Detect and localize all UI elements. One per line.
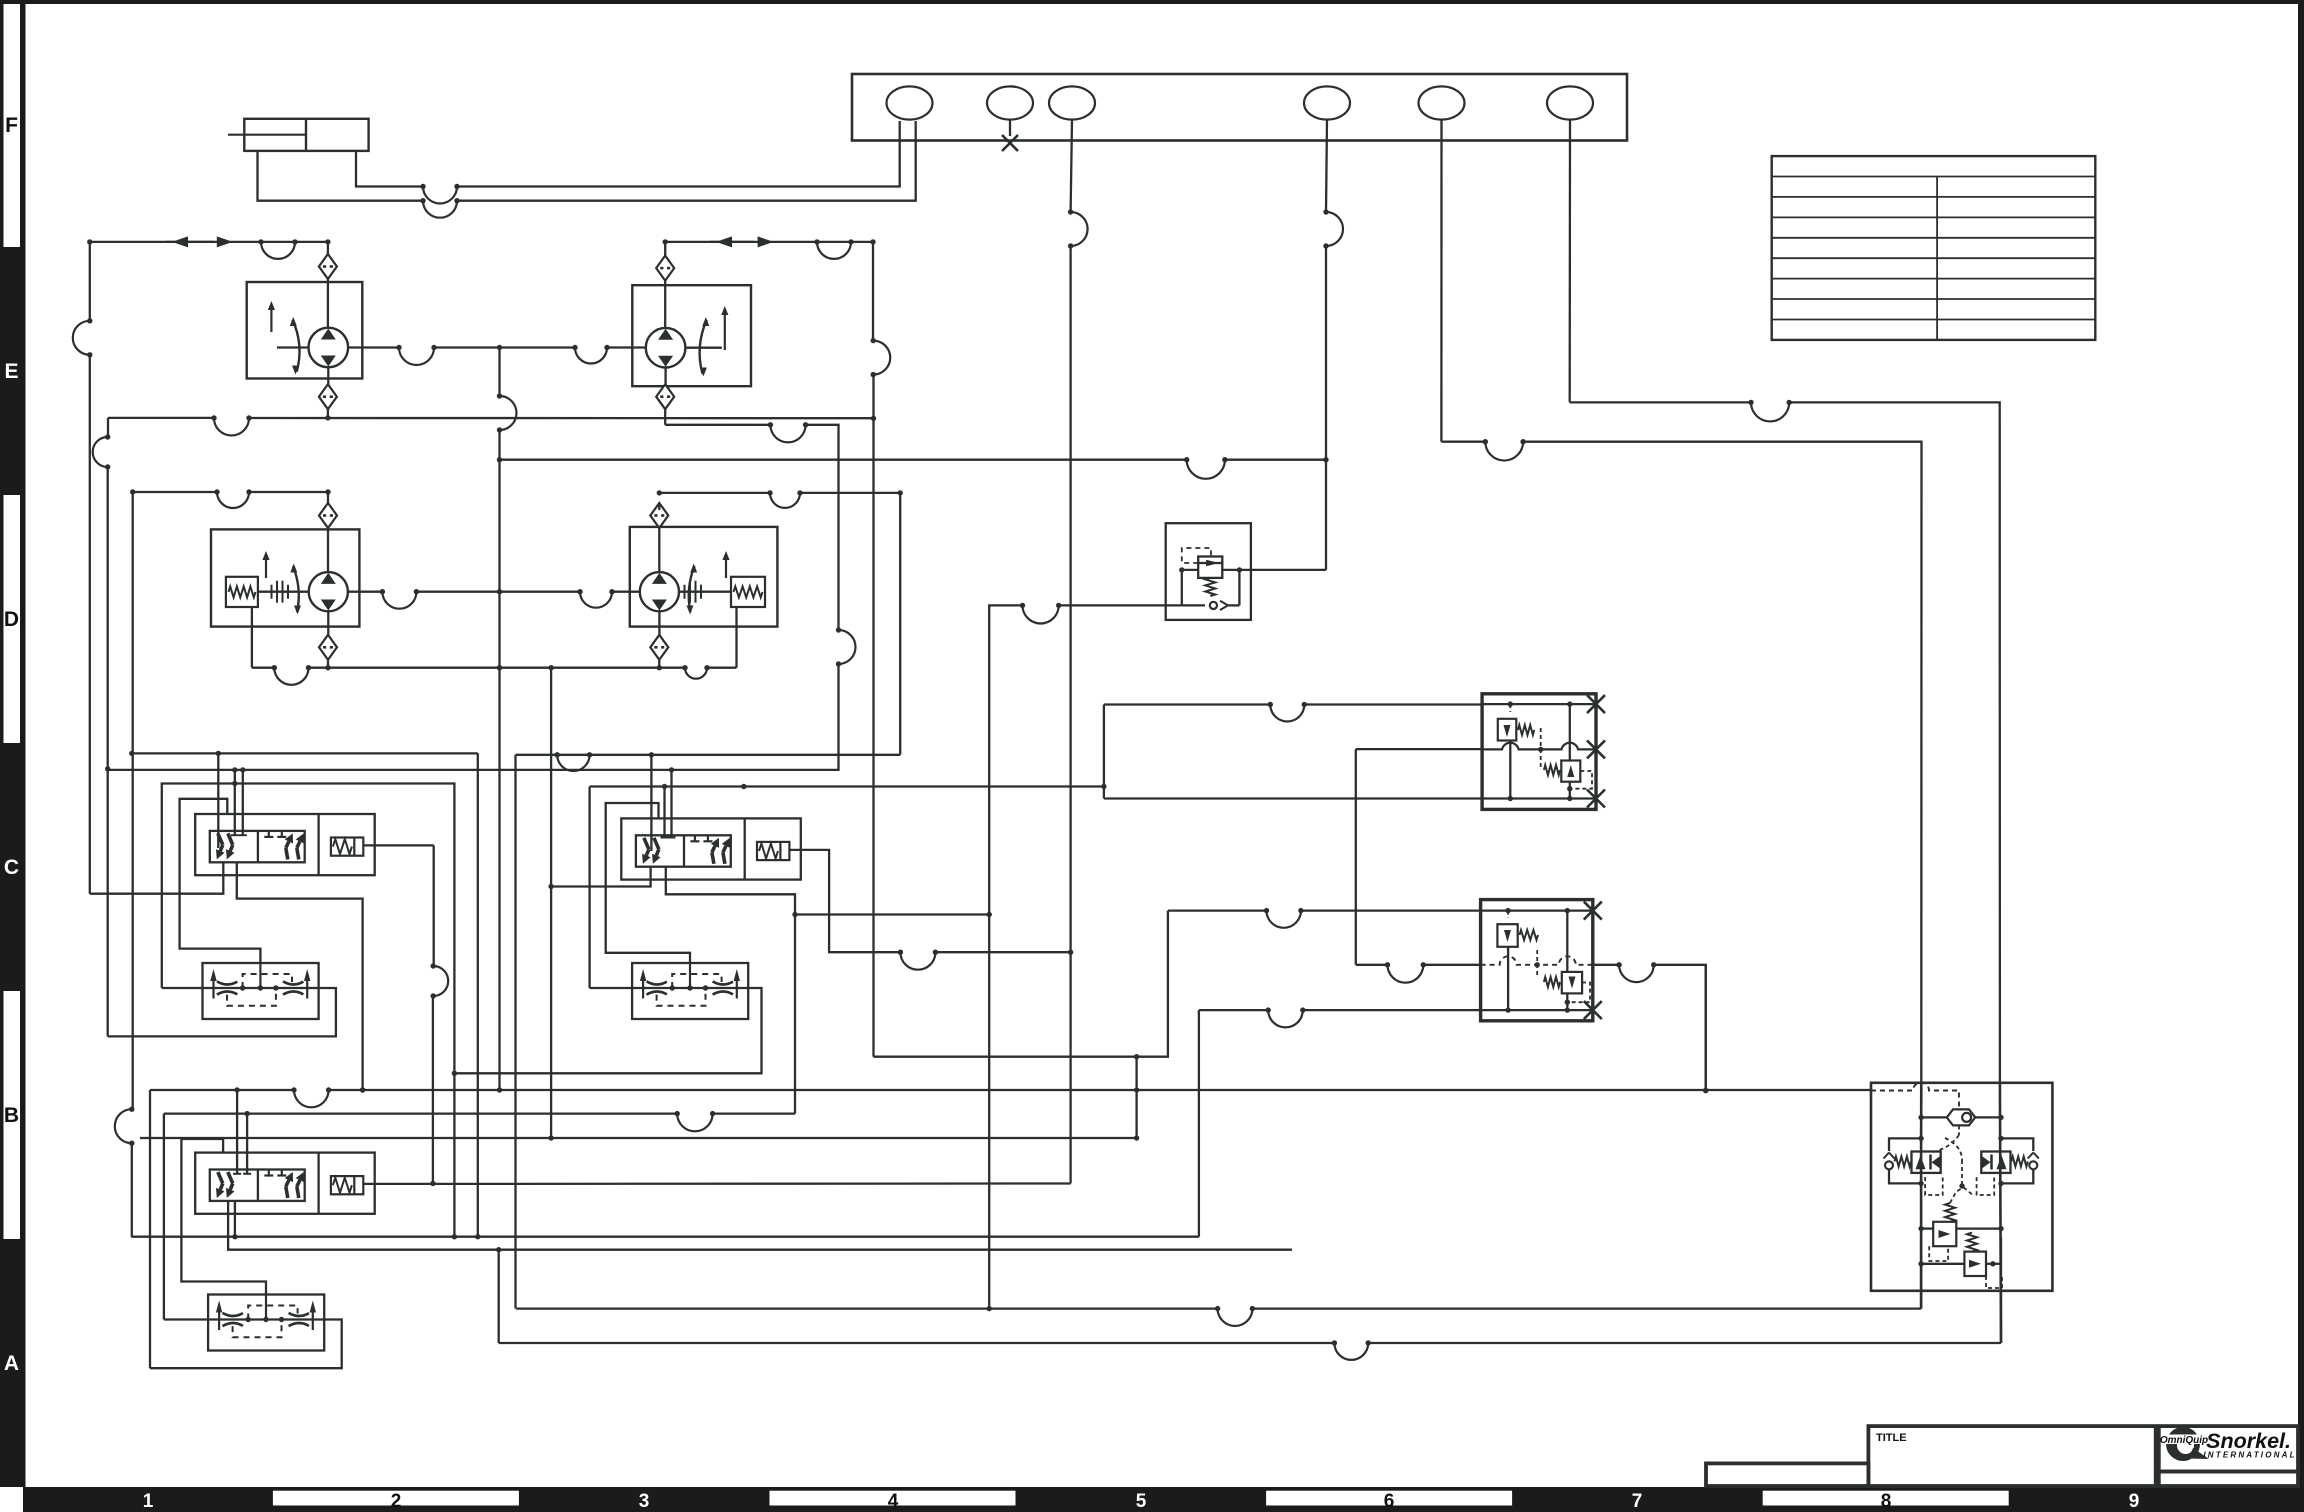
- svg-text:A: A: [4, 1352, 19, 1375]
- svg-text:E: E: [4, 360, 18, 383]
- svg-text:TITLE: TITLE: [1876, 1432, 1907, 1444]
- svg-text:9: 9: [2129, 1491, 2140, 1512]
- svg-text:Snorkel.: Snorkel.: [2206, 1429, 2291, 1453]
- svg-text:D: D: [4, 608, 19, 631]
- svg-text:7: 7: [1632, 1491, 1643, 1512]
- svg-text:F: F: [5, 114, 18, 137]
- svg-text:8: 8: [1881, 1491, 1892, 1512]
- svg-text:1: 1: [143, 1491, 154, 1512]
- svg-text:3: 3: [639, 1491, 650, 1512]
- svg-text:6: 6: [1384, 1491, 1395, 1512]
- svg-text:INTERNATIONAL: INTERNATIONAL: [2203, 1451, 2296, 1460]
- svg-text:2: 2: [391, 1491, 402, 1512]
- svg-text:5: 5: [1136, 1491, 1147, 1512]
- svg-text:C: C: [4, 856, 19, 879]
- svg-text:B: B: [4, 1104, 19, 1127]
- svg-text:OmniQuip: OmniQuip: [2160, 1435, 2208, 1446]
- svg-text:4: 4: [888, 1491, 899, 1512]
